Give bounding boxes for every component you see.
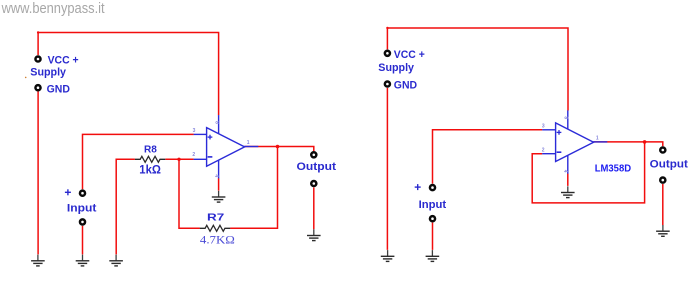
svg-text:Input: Input (419, 199, 447, 211)
svg-text:R8: R8 (144, 144, 157, 156)
svg-text:R7: R7 (207, 212, 224, 224)
svg-text:www.bennypass.it: www.bennypass.it (1, 1, 105, 17)
svg-text:2: 2 (192, 152, 195, 158)
svg-text:Output: Output (297, 161, 337, 173)
svg-text:4: 4 (562, 170, 568, 173)
svg-text:Output: Output (650, 159, 689, 171)
svg-text:LM358D: LM358D (595, 162, 632, 174)
svg-text:VCC +: VCC + (48, 54, 79, 66)
svg-text:2: 2 (542, 148, 545, 154)
svg-text:GND: GND (47, 84, 70, 96)
svg-text:VCC +: VCC + (394, 49, 425, 61)
svg-text:Supply: Supply (378, 62, 415, 74)
svg-text:1: 1 (596, 135, 599, 141)
svg-text:1: 1 (247, 140, 250, 146)
svg-text:Input: Input (67, 203, 97, 215)
svg-text:4.7KΩ: 4.7KΩ (200, 233, 235, 247)
svg-text:8: 8 (562, 116, 568, 119)
svg-text:Supply: Supply (30, 67, 67, 79)
svg-text:8: 8 (213, 121, 219, 124)
svg-text:3: 3 (193, 128, 196, 134)
svg-text:4: 4 (213, 174, 219, 177)
svg-text:1kΩ: 1kΩ (139, 165, 161, 177)
svg-text:GND: GND (394, 79, 417, 91)
svg-text:3: 3 (542, 124, 545, 130)
